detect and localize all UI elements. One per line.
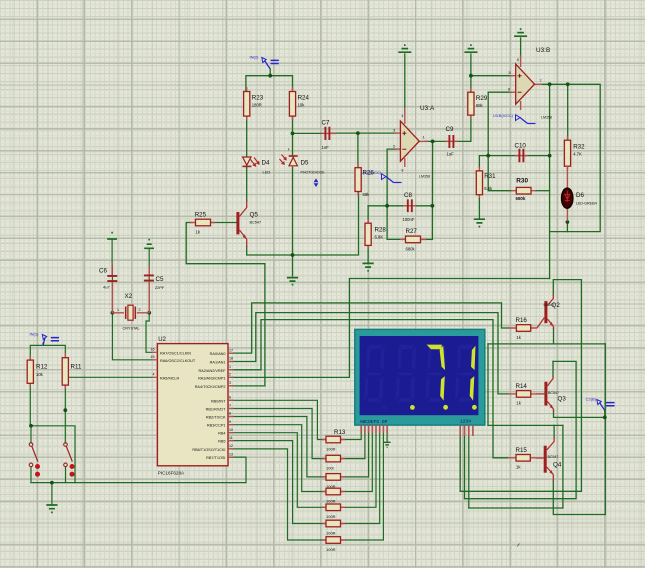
wire R27 right to feedback column [421,238,432,240]
wire digit3 pin drop [468,434,470,508]
svg-text:C8: C8 [404,192,412,199]
op-amp U3:B [508,47,552,120]
power bar above R29 node [464,45,477,52]
display digit pins 1-4 [460,425,473,436]
svg-text:22PF: 22PF [155,285,165,290]
pin 17 RA0/AN0 [210,348,234,356]
pin 18 RA1/AN1 [210,357,234,365]
ground under emitter rail [287,278,298,285]
svg-text:LED: LED [263,170,271,175]
svg-text:PHOTODIODE: PHOTODIODE [301,171,326,175]
wire U3:A pin2 to feedback node [387,149,396,206]
svg-text:CRYSTAL: CRYSTAL [123,327,140,331]
wire R26 top lead from node A [357,133,359,166]
pin 12 RB6/T1OSO/T1CKI [192,444,233,452]
resistor R12 [27,356,48,387]
OP-AMPS [393,47,552,179]
svg-text:4: 4 [402,114,404,118]
node D6 bottom [566,220,570,224]
transistor Q5 BC547 [236,200,261,247]
wire battery IN(1) stub [42,343,44,345]
pin 6 RB0/INT [211,396,234,404]
display digit 1 ghost [364,345,385,402]
resistor R24 [289,87,309,120]
svg-text:R13: R13 [334,429,346,436]
svg-text:R11: R11 [71,364,82,371]
diode D4 LED [242,157,270,175]
svg-text:8: 8 [229,412,231,416]
wire C9 right up to R29 [456,116,471,142]
svg-text:R32: R32 [573,144,585,151]
svg-text:17: 17 [229,348,233,352]
7-SEGMENT DISPLAY [355,329,485,436]
pin 2 RA3/AN3/CMP1 [198,373,233,381]
svg-text:U3:B: U3:B [536,47,550,54]
wire R13 row6 right to display pin F [340,431,379,524]
svg-text:PIC16F628A: PIC16F628A [158,471,185,476]
svg-text:3: 3 [393,128,396,133]
svg-text:R31: R31 [484,173,496,180]
wire U3:A output to C9 [425,140,447,142]
display digit 2 ghost [396,345,417,402]
svg-text:LM358: LM358 [541,116,552,120]
svg-text:10k: 10k [36,372,44,377]
wire drop to digit3 row [562,425,564,508]
resistor R29 [468,88,488,119]
svg-text:D4: D4 [262,160,270,167]
wire C8 left segment with R28 top [368,205,406,207]
node R11 bottom [63,408,67,412]
display decimal point d2 lit [410,405,415,410]
svg-text:6.8K: 6.8K [375,235,384,240]
svg-text:R28: R28 [375,227,387,234]
svg-text:RA5/MCLR: RA5/MCLR [160,376,179,380]
svg-text:1k: 1k [516,335,521,340]
pin 4 RA5/MCLR [152,373,180,381]
wire U3:A feedback column [431,141,433,239]
pin 13 RB7/T1OSI [206,452,233,460]
wire bus3 RA2 to R15 [229,320,509,458]
svg-text:10: 10 [229,428,233,432]
svg-text:1nF: 1nF [322,145,330,150]
svg-text:R14: R14 [516,383,528,390]
resistor R11 [62,353,82,389]
svg-text:3: 3 [229,381,231,385]
svg-text:1: 1 [117,308,119,312]
svg-text:BC547: BC547 [250,221,262,225]
wire digit2 pin drop and row to Q3 collector column [465,361,577,498]
svg-text:Q5: Q5 [250,212,259,219]
svg-text:100r: 100r [326,466,335,471]
wire battery C2(B) stub [604,411,606,418]
transistor Q4 BC547 [536,438,562,482]
svg-text:R12: R12 [36,364,48,371]
wire R24 to node to D5 [292,116,294,156]
op-amp U3:A [393,105,435,179]
svg-text:1uF: 1uF [447,152,455,157]
resistor R23 [244,87,264,120]
svg-text:4: 4 [153,373,155,377]
svg-text:R29: R29 [476,95,488,102]
svg-text:RB1/RX/DT: RB1/RX/DT [206,408,227,412]
stray mark [518,544,520,547]
power bar above U3:B [514,29,527,36]
svg-text:8: 8 [402,169,404,173]
node switch rail ground [50,481,54,485]
capacitor C10 [515,143,529,163]
svg-text:C9: C9 [446,126,454,133]
svg-text:4u7: 4u7 [103,285,110,290]
svg-text:D6: D6 [576,192,584,199]
svg-text:100R: 100R [326,498,336,503]
pin 1 RA2/AN2/VREF [198,365,233,373]
resistor R13f [322,520,345,535]
DIODES [242,148,597,222]
wire C8 right to feedback column [414,205,433,207]
svg-text:LED-GREEN: LED-GREEN [576,202,597,206]
svg-text:68k: 68k [476,103,484,108]
resistor R27 [400,228,426,252]
wire right column x549.6 output net [549,84,551,278]
wire R31 top to C10 left [479,156,517,168]
svg-text:9: 9 [229,420,231,424]
node battery top [268,74,272,78]
wire Q4 collector row [488,424,563,426]
node crystal right [147,311,151,315]
wire C5 column to crystal node [148,249,150,313]
wire R13 row5 right to display pin E [340,431,376,507]
wire RB1 to R13 row2 [229,409,327,459]
wire D6 bottom stub to line [566,221,568,232]
svg-text:2: 2 [229,373,231,377]
wire C7 right to U3:A pin3 [332,132,397,134]
wire Q3 collector stub [552,361,554,376]
wire U3:A power stem [404,54,406,112]
svg-text:100nF: 100nF [403,217,415,222]
svg-text:10k: 10k [298,103,306,108]
display digit 3 lit segments showing 7 [427,345,446,401]
display pins A-DP [361,425,387,433]
battery C2(B) right [586,397,615,411]
resistor R26 [355,163,374,197]
display body [355,329,485,425]
transistor Q2 BC547 [537,295,560,330]
svg-text:RB2/TX/CK: RB2/TX/CK [206,416,226,420]
net flag U3:B(V/CC) [493,114,536,124]
pin 10 RB4 [218,428,233,436]
wire R13 row2 right to display pin B [340,431,365,459]
svg-text:U3:A(V/CC): U3:A(V/CC) [361,171,382,175]
VERTICAL RESISTORS [27,87,585,389]
wire R31 bottom to ground [478,198,480,218]
resistor R13e [322,504,345,519]
HORIZONTAL RESISTORS [190,178,537,470]
wire bus1 RA0 to R16 [229,303,510,353]
node A R26 tap [356,131,360,135]
wire RB0 to R13 row1 [229,400,327,439]
wire bus2 RA1 to R14 [229,313,510,394]
node R32 tap [566,82,570,86]
resistor R16 [508,317,537,340]
display decimal point ghost d1 [383,405,388,410]
svg-text:R27: R27 [406,228,418,235]
node R24/C7/D5 [291,132,295,136]
wire R28 bottom to ground [367,246,369,263]
wire R13 row3 right to display pin C [340,431,368,477]
svg-text:Q4: Q4 [553,462,562,469]
svg-text:C5: C5 [156,276,164,283]
svg-text:12: 12 [229,444,233,448]
svg-text:ABCDEFG DP: ABCDEFG DP [360,419,388,425]
svg-text:6: 6 [508,87,511,92]
ground under R28 [363,263,374,270]
svg-text:RA0/AN0: RA0/AN0 [210,352,226,356]
wire D4 to Q5 collector [246,167,248,200]
wire crystal right node jog to PIC pin16 [146,313,152,353]
wire U3:B pin6 loop down to C10 line [488,92,511,155]
net flag U3:A(V/CC) [361,171,402,183]
wire battery IN(1) top rail [30,345,65,360]
svg-text:1k: 1k [516,465,521,470]
wire switch1 bottom stub [30,467,32,483]
PIC16F628A U2 [151,337,234,476]
wire Q3 emitter line to battery node [554,410,605,417]
wire node to R27 left [387,206,404,240]
wire display-edge drop [487,344,489,426]
wire Q4 emitter down and right [553,481,605,515]
wire RB5 to R13 row6 [229,441,327,524]
wire R28 top lead [367,206,369,223]
battery IN(1) left [30,332,60,346]
ground under display DP pin [384,442,391,447]
battery IN(2) top [250,55,279,69]
svg-text:6: 6 [229,396,231,400]
svg-text:RA3/AN3/CMP1: RA3/AN3/CMP1 [198,376,225,380]
svg-text:R16: R16 [516,317,528,324]
node output column tap [548,82,552,86]
svg-text:R24: R24 [298,95,310,102]
svg-text:RA1/AN1: RA1/AN1 [210,361,226,365]
svg-text:680k: 680k [516,196,526,201]
wire rail B Q2 collector net to digit1 [460,280,581,492]
display digit 3 ghost [426,345,447,402]
svg-text:R23: R23 [252,95,264,102]
svg-text:C7: C7 [322,120,330,127]
wire RB4 to R13 row5 [229,433,327,508]
diode D5 PHOTODIODE [280,148,326,175]
svg-text:Q3: Q3 [558,396,567,403]
wire far right column x605 [604,344,606,515]
resistor R13g [322,537,345,552]
resistor R30 [511,178,536,201]
wire R25 right to Q5 base [213,222,237,224]
svg-text:1: 1 [229,365,231,369]
svg-text:RA4/T0CKI/CMP2: RA4/T0CKI/CMP2 [195,385,226,389]
switch SW2 [64,443,75,477]
svg-text:k: k [288,148,290,152]
display decimal point d3 lit [443,405,448,410]
svg-text:IN(1): IN(1) [30,332,40,337]
svg-text:1234: 1234 [460,418,471,424]
wire RB3 to R13 row4 [229,425,327,492]
svg-text:7: 7 [229,404,231,408]
CAPACITORS [99,120,528,314]
power bar above U3:A [398,45,411,52]
svg-text:RA2/AN2/VREF: RA2/AN2/VREF [198,369,226,373]
svg-text:4.7K: 4.7K [573,152,582,157]
node C8 right [431,204,435,208]
svg-text:1: 1 [423,135,426,140]
svg-text:RB3/CCP1: RB3/CCP1 [207,424,226,428]
display digit 4 lit segments showing 1 [470,346,476,401]
capacitor C9 [445,126,458,157]
CRYSTAL X2 [112,293,149,331]
wire rail A from display left column to PIC RA3 [229,279,550,378]
wire Q4 collector stub [553,425,555,438]
node C10 right [548,154,552,158]
SWITCHES [29,443,74,477]
wire U3:B output rail right and down to D6 line [540,84,600,231]
resistor R14 [508,383,536,406]
resistor R13d [322,488,345,503]
pin 11 RB5 [218,436,233,444]
svg-text:R15: R15 [516,447,528,454]
svg-text:IN(2): IN(2) [250,55,260,60]
wire top supply rail to R23/R24 [246,76,293,92]
svg-text:Q2: Q2 [552,302,561,309]
svg-text:15: 15 [151,355,155,359]
resistor R13c [322,474,345,489]
pin 15 RA6/OSC2 [151,355,196,363]
svg-text:180R: 180R [252,103,262,108]
display digit 4 ghost [455,345,476,402]
switch SW1 [29,443,40,477]
resistor R13a [322,436,345,451]
node C8 left [385,204,389,208]
power bar above C5 [144,240,154,249]
wire R11 MCLR line to PIC pin4 [67,376,152,378]
ground under R31 [474,219,485,226]
svg-text:RB5: RB5 [218,440,225,444]
svg-text:1k: 1k [516,401,521,406]
svg-text:C2(B): C2(B) [586,397,597,402]
wire C6 column through crystal node to PIC pin15 [112,240,152,360]
resistor R15 [508,447,536,470]
node R29 top [469,74,473,78]
wire battery IN(2) stub [269,69,271,76]
diode D6 LED-GREEN [562,166,598,221]
wire switch rail ground stub [51,483,53,504]
svg-text:C10: C10 [515,143,527,150]
capacitor C7 [321,120,336,151]
svg-text:D5: D5 [301,160,309,167]
display decimal point d4 lit [472,405,477,410]
wire R13 row7 right to display pin G [340,431,383,540]
capacitor C6 [99,263,117,313]
svg-text:18: 18 [229,357,233,361]
wire display DP pin to ground [386,431,388,442]
pin 7 RB1/RX/DT [206,404,234,412]
wire R32 top from output node [567,84,569,139]
wire switch2 bottom stub [65,467,67,483]
wire R30 right lead to column [535,190,549,192]
wire jog from R12 node down to rail [31,426,75,483]
svg-text:100R: 100R [326,514,336,519]
svg-text:X2: X2 [125,293,133,300]
svg-text:8: 8 [517,58,519,62]
svg-text:RA6/OSC2/CLKOUT: RA6/OSC2/CLKOUT [160,359,196,363]
svg-text:LM358: LM358 [419,175,430,179]
BATTERY SYMBOLS (blue) [30,55,615,411]
capacitor C8 [403,192,417,222]
wire R11 column to switch2 [64,386,66,443]
wire R29 top to node and power bar [470,54,472,92]
svg-text:2: 2 [139,308,141,312]
node R12 bottom [29,424,33,428]
wire switch1 top stub [30,426,32,443]
resistor R25 [190,212,215,235]
wire Q2 emitter line [553,328,555,344]
svg-text:C6: C6 [99,268,107,275]
power bar above C6 [107,233,117,239]
wire RB2 to R13 row3 [229,417,327,477]
wire R30 left lead to pin6 column [488,156,512,191]
ground under switch rail [46,505,57,512]
svg-text:RB0/INT: RB0/INT [211,399,226,403]
wire C10 right to column [525,155,549,157]
pin 9 RB3/CCP1 [207,420,234,428]
svg-text:16: 16 [151,348,155,352]
node U3:A output [431,140,435,144]
svg-text:RA7/OSC1/CLKIN: RA7/OSC1/CLKIN [160,351,191,355]
wire RB6 to R13 row7 [229,449,327,540]
wire R23 to D4 [246,116,248,157]
wire R13 row4 right to display pin D [340,431,372,492]
wire node to C7 left [293,132,324,134]
capacitor C5 [144,266,165,313]
svg-text:5: 5 [509,70,512,75]
svg-text:R30: R30 [516,178,528,185]
svg-text:RB6/T1OSO/T1CKI: RB6/T1OSO/T1CKI [192,448,225,452]
wire node to U3:B pin5 [471,75,512,77]
node battery C2(B) [603,416,607,420]
wire D5 to emitter rail and ground stub [292,167,294,276]
svg-text:68k: 68k [363,192,371,197]
svg-text:RB7/T1OSI: RB7/T1OSI [206,456,225,460]
TRANSISTORS [236,200,566,482]
svg-text:2: 2 [393,144,396,149]
pin 3 RA4/T0CKI/CMP2 [195,381,234,389]
node U3:B inverting [486,154,490,158]
wire Q5 emitter rail to R26 bottom [247,193,359,256]
node crystal left [111,311,115,315]
wire digit3 row [469,507,563,509]
svg-text:BC547: BC547 [548,391,559,395]
svg-text:100R: 100R [326,447,336,452]
resistor R28 [365,219,386,249]
wire R25 left to PIC RA4 link [186,223,265,386]
node emitter rail ground [291,253,295,257]
R13 RESISTOR STACK [322,429,346,552]
wire R12 column to jog node [29,384,31,426]
svg-text:U3:B(V/CC): U3:B(V/CC) [493,114,514,118]
svg-text:13: 13 [229,452,233,456]
resistor R32 [564,136,585,170]
svg-text:7: 7 [540,78,543,83]
wire U3:B power stem [520,38,522,58]
svg-text:680k: 680k [406,247,416,252]
svg-text:100R: 100R [326,530,336,535]
